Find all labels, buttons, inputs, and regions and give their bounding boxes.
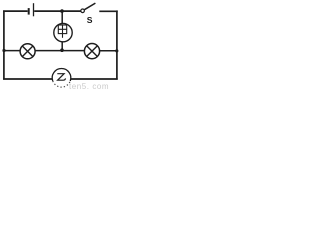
lamp L1 circle (20, 44, 35, 59)
lamp L2 circle (84, 44, 99, 59)
wire middle-left segment (4, 50, 20, 52)
meter jia (circle) (54, 23, 72, 41)
wire top-right segment (switch to corner) (99, 10, 117, 12)
lamp L2 cross (87, 46, 98, 57)
battery B1 long plate (positive) (33, 3, 35, 16)
switch S hinge circle (81, 9, 85, 13)
node junction dot right (middle wire to right rail) (115, 49, 118, 52)
wire bottom-right segment (71, 78, 118, 80)
lamp L1 cross (22, 46, 33, 57)
wire left vertical (3, 10, 5, 79)
wire right vertical (116, 10, 118, 79)
node junction dot middle (between lamps) (60, 48, 64, 52)
switch S blade (open) (84, 3, 95, 10)
wire middle-center segment (35, 50, 85, 52)
wire middle-right segment (100, 50, 117, 52)
wire jia branch lower vertical (61, 42, 63, 51)
wire jia branch upper vertical (61, 11, 63, 24)
battery B1 short plate (negative) (28, 8, 30, 15)
node junction dot left (middle wire to left rail) (2, 49, 5, 52)
svg-text:S: S (87, 15, 93, 25)
wire top-middle segment (battery to switch) (34, 10, 80, 12)
meter jia glyph (Chinese jia drawn as strokes) (58, 25, 66, 38)
meter yi glyph (Chinese yi drawn as strokes) (57, 74, 65, 81)
wire top-left segment (corner to battery) (3, 10, 28, 12)
meter yi (circle, bottom arc faded/dotted) (52, 69, 71, 81)
node junction dot top (meter jia branch tap) (60, 9, 64, 13)
wire bottom-left segment (3, 78, 52, 80)
svg-text:ten5. com: ten5. com (69, 82, 109, 90)
